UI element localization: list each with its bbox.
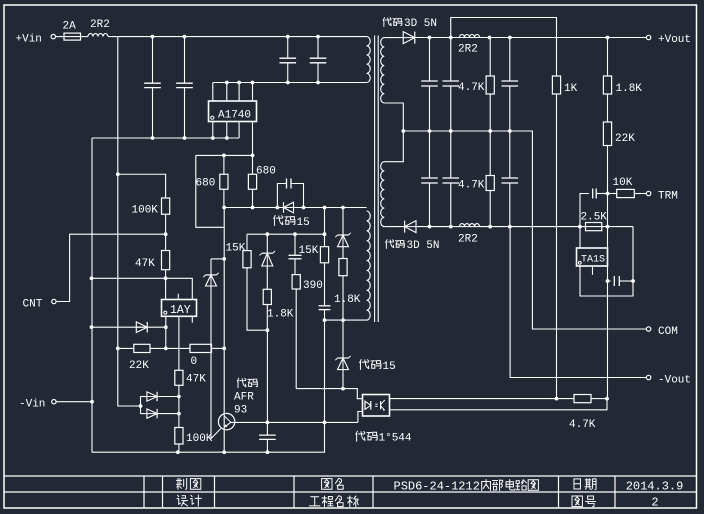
svg-text:22K: 22K	[615, 133, 635, 145]
resistor 47K B	[178, 316, 180, 370]
pin 7	[238, 122, 240, 139]
wire bus y234.2	[247, 233, 325, 235]
junction	[90, 325, 94, 329]
capacitor C11 bypass	[277, 184, 286, 208]
resistor 15K B	[324, 208, 326, 247]
resistor 10K	[608, 193, 617, 195]
transformer T1 primary W1	[367, 37, 371, 83]
junction	[183, 136, 187, 140]
label 日期	[574, 479, 580, 489]
opto LED	[364, 401, 366, 410]
inductor 2R2 output A	[460, 35, 480, 38]
terminal COM	[646, 327, 650, 331]
wire ground bus y138	[92, 137, 239, 139]
diode D8	[141, 413, 147, 415]
svg-text:4.7K: 4.7K	[458, 82, 485, 94]
junction	[606, 279, 610, 283]
wire S2 top lead	[384, 131, 403, 162]
pin stub bottom	[191, 316, 193, 323]
svg-text:2014.3.9: 2014.3.9	[626, 479, 684, 493]
wire bus y348	[118, 347, 134, 349]
resistor 1K	[552, 76, 560, 94]
junction	[90, 276, 94, 280]
junction	[251, 206, 255, 210]
junction	[323, 232, 327, 236]
svg-text:2R2: 2R2	[90, 19, 110, 31]
resistor 390	[292, 275, 300, 289]
capacitor C2	[184, 37, 186, 84]
wire	[324, 320, 326, 422]
svg-text:15: 15	[297, 217, 310, 229]
capacitor C1	[152, 37, 154, 84]
label 代码1 544	[356, 431, 365, 441]
pin stub	[592, 266, 594, 275]
label 代码 AFR 93	[237, 378, 246, 388]
svg-text:PSD6-24-1212: PSD6-24-1212	[394, 480, 480, 494]
label 制图	[176, 478, 186, 489]
wire diode pair left node	[140, 397, 142, 414]
svg-text:COM: COM	[658, 326, 678, 338]
junction	[164, 347, 168, 351]
IC U2 1AY	[162, 300, 197, 317]
svg-text:680: 680	[256, 166, 276, 178]
junction	[316, 35, 320, 39]
junction	[508, 36, 512, 40]
capacitor C12	[266, 422, 268, 435]
junction	[508, 225, 512, 229]
pin 5	[212, 122, 214, 139]
terminal +Vout	[646, 35, 650, 39]
wire feedback bus y388.6	[296, 389, 362, 399]
svg-text:15: 15	[383, 361, 396, 373]
zener 代码15 Z1	[210, 259, 212, 275]
wire bus y327	[92, 326, 166, 328]
svg-text:47K: 47K	[186, 374, 206, 386]
resistor 22K B	[603, 122, 611, 146]
svg-text:2.5K: 2.5K	[581, 212, 608, 224]
transformer secondary S1	[381, 38, 385, 103]
junction	[164, 325, 168, 329]
wire -Vin vertical	[91, 138, 93, 452]
resistor 100K A	[162, 198, 170, 214]
transformer secondary S2	[381, 162, 385, 227]
pin 1 mark	[164, 311, 167, 314]
wire +Vin drop	[118, 37, 141, 406]
wire S1 bottom lead	[384, 103, 403, 131]
pin 1	[212, 83, 214, 102]
svg-text:AFR: AFR	[234, 392, 254, 404]
junction	[266, 421, 270, 425]
wire -Vrail y226.6	[416, 226, 633, 228]
label 图名	[322, 479, 332, 490]
inductor 2R2 input	[88, 34, 108, 37]
junction	[176, 450, 180, 454]
capacitor C14	[319, 305, 331, 307]
junction	[251, 81, 255, 85]
svg-text:15K: 15K	[226, 243, 246, 255]
wire	[196, 155, 224, 227]
label 代码15	[274, 215, 283, 225]
junction	[225, 81, 229, 85]
diode 代码3D D2	[405, 221, 416, 233]
junction	[449, 36, 453, 40]
junction	[251, 154, 255, 158]
junction	[177, 395, 181, 399]
junction	[449, 129, 453, 133]
resistor 1.8K B	[339, 259, 347, 276]
wire A1740 top rail	[213, 82, 367, 84]
wire opto LED return	[358, 412, 363, 423]
svg-text:A1740: A1740	[218, 109, 251, 121]
junction	[401, 129, 405, 133]
wire bus y320	[325, 319, 367, 321]
label 代码15	[360, 359, 369, 369]
svg-text:1.8K: 1.8K	[334, 294, 361, 306]
junction	[222, 257, 226, 261]
svg-text:1.8K: 1.8K	[616, 83, 643, 95]
wire S1 top lead	[384, 37, 403, 39]
resistor 4.7K A	[489, 38, 491, 77]
svg-text:+Vin: +Vin	[16, 34, 42, 46]
junction	[488, 225, 492, 229]
wire	[57, 401, 93, 403]
wire node bus y207.5	[224, 207, 367, 209]
junction	[631, 279, 635, 283]
capacitor C5	[429, 38, 431, 82]
inductor 2R2 output B	[460, 224, 480, 227]
junction	[606, 36, 610, 40]
pin 1 mark	[211, 116, 214, 119]
capacitor C3	[287, 37, 289, 59]
wire	[211, 258, 224, 260]
diode 代码15 D5	[284, 202, 294, 213]
capacitor C15	[592, 189, 594, 199]
junction	[606, 192, 610, 196]
junction	[323, 318, 327, 322]
resistor 1.8K A	[263, 289, 271, 304]
label 图号	[572, 496, 582, 507]
capacitor C10	[509, 131, 511, 178]
terminal TRM	[646, 191, 650, 195]
svg-text:2R2: 2R2	[458, 44, 478, 56]
wire base lead	[211, 429, 221, 439]
resistor 680 A	[223, 155, 225, 174]
title block lines	[4, 475, 697, 477]
pin 3	[238, 83, 240, 102]
IC U3 TA1S	[577, 248, 608, 266]
svg-text:390: 390	[303, 280, 323, 292]
junction	[341, 206, 345, 210]
junction	[276, 206, 280, 210]
opto transistor	[375, 403, 377, 405]
pin wire	[165, 316, 167, 348]
svg-text:2: 2	[651, 495, 658, 509]
wire +Vout rail	[415, 37, 646, 39]
pin 2	[226, 83, 228, 102]
junction	[341, 318, 345, 322]
junction	[449, 225, 453, 229]
wire opto emitter	[390, 399, 608, 410]
transformer T1 primary W2	[367, 211, 371, 320]
wire TA1S loop	[580, 227, 633, 296]
wire -Vout drop	[510, 227, 646, 378]
junction	[222, 347, 226, 351]
wire	[81, 36, 89, 38]
terminal +Vin	[51, 34, 55, 38]
op-amp U1 A1740	[209, 101, 257, 122]
svg-text:1.8K: 1.8K	[267, 309, 294, 321]
junction	[508, 129, 512, 133]
terminal CNT	[52, 299, 56, 303]
svg-text:100K: 100K	[132, 205, 159, 217]
svg-text:-Vin: -Vin	[19, 399, 45, 411]
capacitor C8	[429, 131, 431, 178]
junction	[222, 450, 226, 454]
label 代码3D 5N	[383, 18, 391, 27]
wire bus y278	[92, 278, 193, 299]
wire bus y155	[196, 154, 253, 156]
junction	[605, 397, 609, 401]
junction	[151, 136, 155, 140]
wire S2 bottom lead	[384, 226, 404, 228]
wire +Vin rail	[108, 36, 367, 38]
svg-text:3D 5N: 3D 5N	[404, 18, 437, 30]
junction	[266, 328, 270, 332]
transformer core	[374, 36, 376, 323]
zener 代码15 Z2	[266, 234, 268, 253]
resistor 4.7K B	[489, 131, 491, 176]
pin 6	[226, 122, 228, 139]
junction	[151, 35, 155, 39]
wire	[56, 36, 64, 38]
junction	[286, 81, 290, 85]
svg-text:4.7K: 4.7K	[569, 419, 596, 431]
junction	[302, 206, 306, 210]
junction	[116, 347, 120, 351]
capacitor C9	[450, 131, 452, 178]
svg-text:93: 93	[234, 405, 247, 417]
junction	[606, 225, 610, 229]
svg-text:1AY: 1AY	[170, 304, 191, 317]
resistor 100K B	[175, 428, 183, 445]
capacitor C7	[509, 38, 511, 82]
wire bypass loop	[451, 18, 557, 77]
svg-text:2A: 2A	[63, 21, 77, 33]
junction	[164, 232, 168, 236]
svg-text:+Vout: +Vout	[658, 34, 691, 46]
wire CNT	[57, 234, 166, 301]
svg-text:-Vout: -Vout	[658, 374, 691, 386]
svg-text:47K: 47K	[135, 258, 155, 270]
wire opto collector	[390, 398, 557, 400]
junction	[428, 129, 432, 133]
wire bottom rail	[92, 422, 325, 452]
pin 4	[252, 83, 254, 102]
terminal -Vin	[52, 400, 56, 404]
junction	[286, 35, 290, 39]
svg-text:2R2: 2R2	[458, 234, 478, 246]
svg-text:TRM: TRM	[658, 190, 678, 202]
svg-text:0: 0	[191, 356, 198, 368]
transistor Q1 AFR93	[218, 413, 234, 429]
junction	[488, 129, 492, 133]
junction	[265, 232, 269, 236]
junction	[222, 206, 226, 210]
terminal -Vout	[646, 375, 650, 379]
svg-text:10K: 10K	[613, 177, 633, 189]
junction	[555, 397, 559, 401]
pin 8	[252, 122, 254, 156]
wire collector line	[223, 208, 225, 453]
junction	[225, 136, 229, 140]
resistor 15K A	[246, 234, 248, 250]
optocoupler U4	[363, 395, 390, 417]
junction	[139, 404, 143, 408]
zener 代码15 Z3	[342, 208, 344, 236]
label 工程名称	[309, 497, 319, 506]
junction	[323, 421, 327, 425]
svg-text:3D 5N: 3D 5N	[407, 240, 440, 252]
resistor 22K A	[134, 344, 150, 352]
junction	[177, 412, 181, 416]
diode 代码3D D1	[403, 32, 415, 44]
resistor 4.7K C	[557, 398, 575, 400]
junction	[293, 232, 297, 236]
svg-text:100K: 100K	[186, 433, 213, 445]
svg-text:CNT: CNT	[23, 299, 43, 311]
wire emitter bus y422.4	[231, 421, 358, 423]
junction	[266, 450, 270, 454]
junction	[428, 225, 432, 229]
junction	[316, 81, 320, 85]
junction	[164, 276, 168, 280]
svg-text:4.7K: 4.7K	[458, 180, 485, 192]
capacitor C13 390-chain	[294, 234, 296, 255]
label 代码3D 5N	[386, 240, 394, 249]
pin stub top	[177, 294, 179, 300]
capacitor C16	[608, 280, 611, 282]
diode D7	[141, 396, 147, 398]
pin 1 mark	[578, 261, 581, 264]
junction	[116, 172, 120, 176]
junction	[488, 36, 492, 40]
junction	[578, 225, 582, 229]
svg-text:15K: 15K	[299, 245, 319, 257]
junction	[222, 154, 226, 158]
diode D6	[136, 322, 147, 333]
resistor 1.8K C	[607, 38, 609, 77]
junction	[341, 387, 345, 391]
wire cap bus y193.5	[580, 194, 589, 249]
junction	[183, 35, 187, 39]
junction	[90, 400, 94, 404]
label 设计	[177, 495, 188, 506]
junction	[323, 206, 327, 210]
fuse F1 2A	[64, 33, 81, 40]
capacitor C4	[317, 37, 319, 59]
svg-text:1K: 1K	[564, 83, 578, 95]
capacitor C6	[450, 38, 452, 82]
svg-text:22K: 22K	[129, 360, 149, 372]
resistor 2.5K	[586, 223, 602, 231]
junction	[428, 36, 432, 40]
wire bus y174	[118, 174, 166, 198]
wire	[266, 330, 268, 422]
resistor 680 B	[252, 155, 254, 174]
wire mid rail y131	[403, 131, 646, 329]
svg-text:680: 680	[196, 178, 216, 190]
zener 代码15 Z4	[342, 320, 344, 358]
resistor 47K A	[165, 234, 167, 250]
svg-text:1°544: 1°544	[379, 433, 412, 445]
junction	[237, 81, 241, 85]
resistor 0	[190, 344, 212, 352]
junction	[211, 136, 215, 140]
svg-text:TA1S: TA1S	[581, 255, 605, 266]
wire TA1S feedback vertical	[607, 194, 609, 399]
